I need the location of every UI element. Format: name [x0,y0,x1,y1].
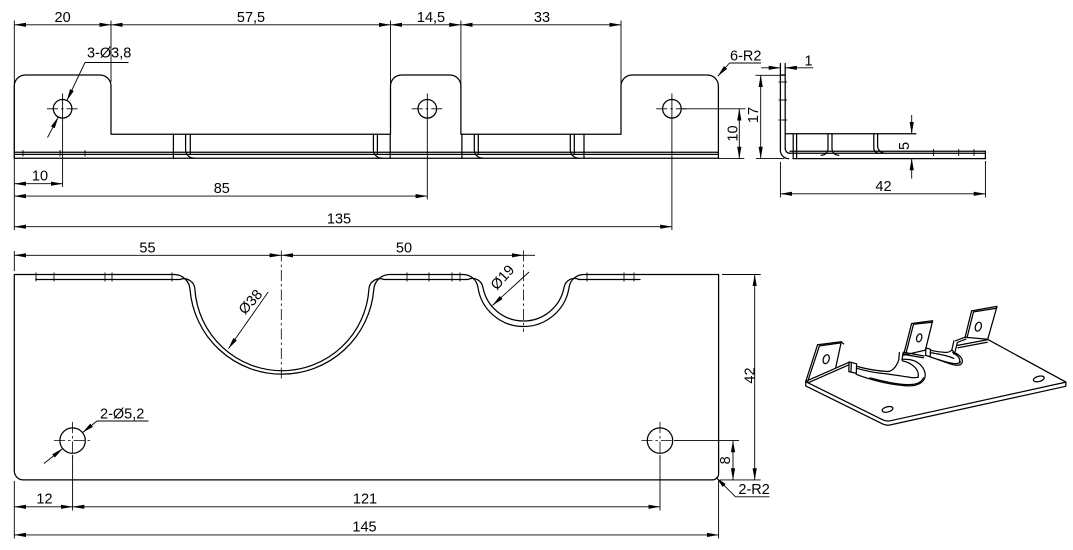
dim 85 [14,181,427,197]
dim 17 (front right vertical) [719,75,785,158]
svg-text:3-Ø3,8: 3-Ø3,8 [87,46,131,62]
dim 121 [73,492,660,508]
iso band 1 [856,359,925,386]
front view bend relief slot s3 [462,134,483,158]
iso plate front thickness edge [806,382,1066,425]
svg-text:12: 12 [36,492,52,508]
iso view plate top face [806,340,1066,421]
iso tab 2 right step [926,348,931,357]
dim 20 [14,10,111,230]
iso tab 1 [806,342,844,382]
dim 42 (side) [780,161,985,198]
label 2-Ø5,2 [44,407,149,464]
bottom view centerline cutout 2 [523,251,525,333]
iso plate back edge near tab3 [958,340,989,348]
dim 50 [281,241,535,257]
dim 55 [14,241,281,272]
iso tab 2 [904,321,933,355]
bottom hole left [54,422,91,511]
side view band verticals [793,134,885,158]
svg-text:14,5: 14,5 [417,10,445,26]
dim 12 [14,481,72,539]
front hole 1 [47,94,78,188]
iso tab 3 foot [952,341,957,354]
svg-text:8: 8 [718,456,734,464]
bottom view centerline cutout 1 [280,251,282,381]
side view profile [780,64,985,159]
svg-text:20: 20 [55,10,71,26]
dim 1 (side) [761,54,813,70]
iso tab 3 [956,306,997,342]
iso plate hole left [882,406,894,414]
svg-text:2-Ø5,2: 2-Ø5,2 [100,407,144,423]
dim 8 [674,441,739,480]
svg-text:1: 1 [804,54,812,70]
side view tab ticks [779,82,788,120]
dim 57,5 [111,10,391,88]
svg-text:85: 85 [214,181,230,197]
svg-text:10: 10 [725,125,741,141]
label Ø38 [228,287,268,349]
iso tab 1 bend foot [806,362,857,383]
svg-text:2-R2: 2-R2 [738,482,769,498]
dim 14,5 [391,10,461,88]
iso band 2 [930,350,962,365]
dim 10 (front right vertical) [682,109,746,159]
svg-text:145: 145 [352,520,376,536]
dim 145 [14,481,718,539]
iso plate hole right [1033,375,1045,383]
dim 42 (bottom view right) [720,275,761,480]
front hole 2 [412,94,443,200]
side view plate ticks [934,149,974,156]
front view bend ticks [23,150,85,157]
label 2-R2 [716,477,770,498]
dim 10 (front lower) [14,169,62,185]
bottom view inner bend line left [36,278,640,370]
svg-text:33: 33 [534,10,550,26]
front view outline [14,75,718,158]
label 6-R2 [718,49,762,77]
svg-text:121: 121 [353,492,377,508]
label 3-Ø3,8 [48,46,132,138]
svg-text:6-R2: 6-R2 [730,49,761,65]
dim 5 (side) [897,115,913,179]
bottom view outline [14,274,718,479]
front hole 3 [656,94,687,231]
svg-text:5: 5 [897,142,913,150]
label Ø19 [488,262,529,305]
front view bend relief slot s2 [373,134,390,158]
svg-text:42: 42 [875,179,891,195]
svg-text:17: 17 [746,107,762,123]
svg-text:55: 55 [139,241,155,257]
svg-text:50: 50 [396,241,412,257]
svg-text:42: 42 [743,367,759,383]
bottom hole right [641,422,678,511]
svg-text:10: 10 [32,169,48,185]
iso tab 2 neck [899,353,903,361]
svg-text:57,5: 57,5 [237,10,265,26]
front view bend relief slot s1 [173,134,194,158]
dim 33 [461,10,621,88]
front view bend relief slot s4 [570,134,584,158]
iso tab 2 foot lines [903,352,924,358]
bottom view bend ticks [36,273,634,282]
dim 135 [14,212,672,228]
svg-text:135: 135 [327,212,351,228]
